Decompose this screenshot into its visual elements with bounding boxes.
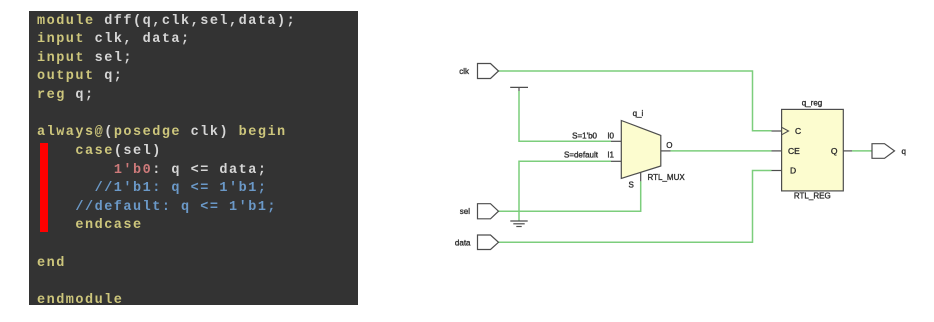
svg-text:q: q	[902, 147, 906, 156]
svg-text:q_reg: q_reg	[802, 99, 822, 108]
svg-text:RTL_MUX: RTL_MUX	[648, 173, 686, 182]
svg-text:O: O	[666, 141, 672, 150]
svg-text:S=default: S=default	[564, 151, 599, 160]
svg-text:RTL_REG: RTL_REG	[794, 192, 831, 201]
svg-text:S=1'b0: S=1'b0	[572, 132, 597, 141]
svg-text:C: C	[795, 126, 801, 136]
svg-text:Q: Q	[831, 146, 838, 156]
svg-text:S: S	[629, 181, 634, 190]
svg-text:data: data	[455, 238, 471, 247]
svg-text:I0: I0	[607, 132, 614, 141]
svg-text:CE: CE	[788, 146, 800, 156]
svg-text:I1: I1	[607, 151, 614, 160]
svg-text:D: D	[790, 166, 796, 176]
svg-text:sel: sel	[460, 207, 470, 216]
svg-text:clk: clk	[459, 67, 470, 76]
svg-text:q_i: q_i	[633, 109, 644, 118]
